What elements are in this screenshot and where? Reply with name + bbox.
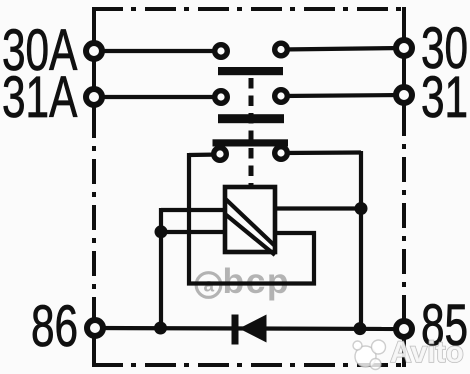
svg-text:bcp: bcp (223, 261, 291, 301)
svg-text:Avito: Avito (390, 336, 464, 369)
svg-text:31: 31 (421, 64, 468, 129)
svg-text:a: a (204, 276, 215, 297)
svg-text:31A: 31A (2, 64, 77, 129)
svg-text:86: 86 (31, 293, 78, 358)
